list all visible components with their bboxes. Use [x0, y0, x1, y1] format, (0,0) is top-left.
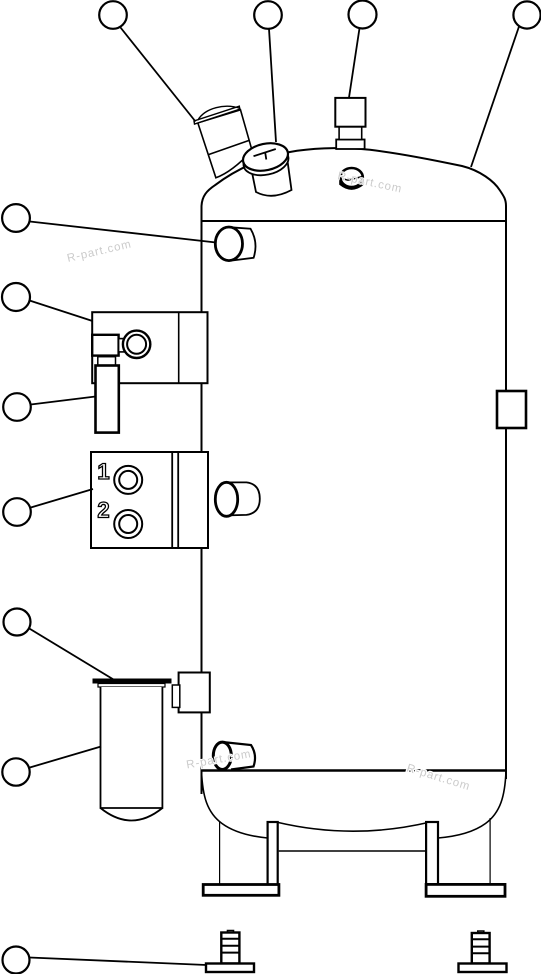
- svg-text:1: 1: [97, 459, 109, 484]
- ring inner: [127, 335, 146, 354]
- callout circle left 5: [4, 609, 31, 636]
- two-port manifold box: [91, 452, 208, 548]
- right side square fitting: [497, 391, 526, 428]
- watermark top: [336, 170, 403, 195]
- callout circle bottom: [3, 947, 30, 974]
- box divider line: [178, 312, 180, 383]
- tank top seam: [202, 220, 507, 222]
- callout circle top 4: [513, 1, 540, 28]
- filter bowl: [101, 687, 163, 808]
- callout circle left 2: [2, 283, 30, 311]
- small plug on dome: [340, 168, 362, 189]
- elbow fitting: [92, 335, 118, 356]
- svg-text:2: 2: [97, 498, 109, 523]
- anchor bolt left: [206, 931, 254, 973]
- bracket flange: [172, 685, 180, 707]
- callout circle left 6: [2, 758, 29, 785]
- watermark bottom left: [185, 748, 252, 771]
- left leg back edge line: [219, 821, 221, 885]
- right leg front band: [426, 822, 438, 896]
- callout circle top 3: [349, 1, 377, 29]
- leader line to switch box: [30, 301, 93, 322]
- filter top plate: [93, 679, 172, 684]
- filter rim: [98, 684, 165, 688]
- tank bottom dome outer skirt right: [438, 771, 506, 838]
- callout circle left 1: [2, 204, 30, 232]
- bottom port cylinder: [213, 742, 255, 770]
- left leg front band: [268, 822, 278, 895]
- leader line to safety valve: [121, 28, 196, 122]
- tank bottom dome outer skirt left: [202, 771, 268, 838]
- port 1 outer: [114, 466, 142, 494]
- leader line to top port: [30, 222, 216, 243]
- leader line to valve block: [349, 28, 360, 97]
- right foot plate: [426, 884, 505, 896]
- callout circle left 3: [3, 393, 31, 421]
- leader line to manifold: [31, 489, 93, 508]
- leader line to filter bowl: [30, 747, 101, 768]
- valve block on dome top: [335, 98, 365, 149]
- port 2 outer: [114, 510, 142, 538]
- filter bowl bottom cap: [101, 808, 163, 821]
- ring outer: [123, 331, 150, 358]
- tank top dome: [202, 148, 507, 212]
- leader line to anchor bolt: [30, 958, 207, 966]
- gauge / flanged cap on dome: [240, 139, 291, 195]
- callout circle top 2: [254, 1, 282, 29]
- tank body outline: [202, 148, 507, 838]
- manifold double lines: [172, 452, 178, 548]
- tank bottom seam: [202, 769, 507, 772]
- safety valve (tilted, top left of dome): [194, 106, 252, 178]
- callout circle top 1: [99, 1, 127, 29]
- watermark bottom right: [405, 762, 472, 793]
- middle port cylinder: [215, 482, 259, 516]
- anchor bolt right: [459, 931, 507, 972]
- tank left edge: [201, 206, 203, 794]
- pressure switch box (upper assembly): [92, 312, 207, 383]
- ring neck: [119, 339, 127, 352]
- port 1 inner: [119, 471, 137, 489]
- watermark left: [66, 238, 133, 265]
- bottom dome back edge arc between legs: [278, 822, 429, 831]
- leader line to drain pipe: [31, 397, 96, 405]
- neck below elbow: [98, 357, 116, 366]
- top port (cylinder on tank, below seam): [215, 227, 255, 261]
- leader line to dome right: [471, 27, 519, 168]
- right leg back edge line: [489, 818, 491, 884]
- drain pipe: [96, 366, 119, 433]
- callout circle left 4: [3, 498, 31, 526]
- crossbar between legs: [279, 850, 426, 852]
- port 2 inner: [119, 515, 137, 533]
- tank right edge: [505, 206, 507, 779]
- filter bracket on tank edge: [179, 673, 210, 713]
- leader line to filter plate: [29, 629, 113, 680]
- leader line to gauge: [269, 29, 276, 142]
- left foot plate: [203, 885, 279, 896]
